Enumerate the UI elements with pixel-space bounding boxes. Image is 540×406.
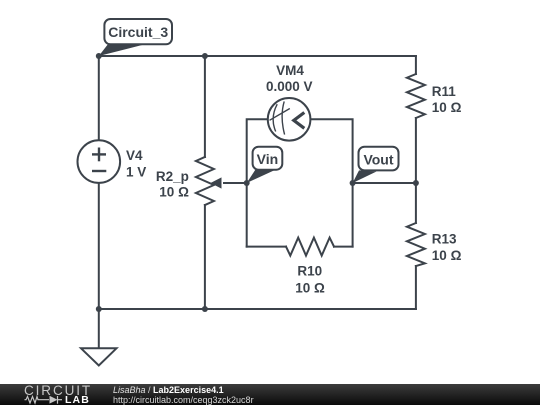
svg-text:1 V: 1 V (126, 164, 146, 179)
wire left branch top (98, 56, 100, 140)
resistor R13 zigzag (407, 223, 425, 266)
node at top-left (96, 53, 102, 59)
svg-text:10 Ω: 10 Ω (432, 100, 462, 115)
footer text (113, 385, 254, 405)
svg-text:R10: R10 (297, 264, 322, 279)
wire R2_p top lead (204, 56, 206, 157)
svg-text:R11: R11 (432, 84, 457, 99)
footer bar (0, 384, 540, 405)
node Vin (244, 180, 250, 186)
resistor R10 zigzag (286, 238, 334, 256)
svg-text:VM4: VM4 (276, 63, 304, 78)
wire R11 top lead (415, 56, 417, 74)
logo CIRCUIT (24, 383, 92, 398)
wire R10 left lead (247, 246, 286, 248)
label Vin tail (247, 170, 276, 184)
svg-text:R2_p: R2_p (156, 169, 189, 184)
wire top horizontal (99, 55, 416, 57)
label Vout box (359, 147, 399, 171)
svg-text:10 Ω: 10 Ω (432, 248, 462, 263)
wire R2_p bottom lead (204, 205, 206, 309)
voltmeter face arcs (270, 101, 290, 134)
resistor R2_p zigzag (196, 157, 214, 205)
node at R2_p top (202, 53, 208, 59)
voltmeter VM4 circle (268, 98, 311, 141)
svg-text:Circuit_3: Circuit_3 (108, 24, 168, 40)
potentiometer wiper wire (224, 182, 247, 184)
potentiometer wiper arrowhead (211, 177, 222, 188)
wire voltmeter left (247, 119, 268, 246)
wire R11 bottom lead (415, 118, 417, 183)
svg-text:10 Ω: 10 Ω (159, 185, 189, 200)
svg-text:R13: R13 (432, 232, 457, 247)
label Vout tail (353, 170, 377, 183)
svg-text:V4: V4 (126, 148, 143, 163)
ground (81, 309, 117, 366)
resistor R11 zigzag (407, 74, 425, 118)
V4 plus sign (92, 148, 106, 172)
wire voltmeter right (310, 119, 352, 246)
voltage source V4 circle (78, 140, 121, 183)
wire left branch bottom (98, 183, 100, 309)
logo resistor+diode glyph (0, 384, 62, 405)
svg-text:0.000 V: 0.000 V (266, 79, 313, 94)
V4 minus sign (92, 170, 106, 172)
node bottom-left (96, 306, 102, 312)
wire bottom horizontal (99, 308, 416, 310)
text V4 value (126, 63, 462, 295)
logo LAB (65, 394, 90, 406)
node R2_p bottom (202, 306, 208, 312)
svg-text:10 Ω: 10 Ω (295, 280, 325, 295)
label Circuit_3 tail (99, 44, 148, 57)
node Vout (350, 180, 356, 186)
svg-text:Vin: Vin (257, 151, 279, 167)
wire Vout to junction (353, 182, 416, 184)
label Circuit_3 box (104, 19, 172, 44)
wire R13 top lead (415, 183, 417, 223)
wire R13 bottom lead (415, 266, 417, 309)
svg-text:Vout: Vout (363, 151, 393, 167)
voltmeter needle (270, 109, 290, 121)
wire R10 right lead (334, 246, 353, 248)
node R11-R13 junction (413, 180, 419, 186)
voltmeter < symbol (294, 113, 305, 129)
label Vin box (253, 147, 283, 170)
